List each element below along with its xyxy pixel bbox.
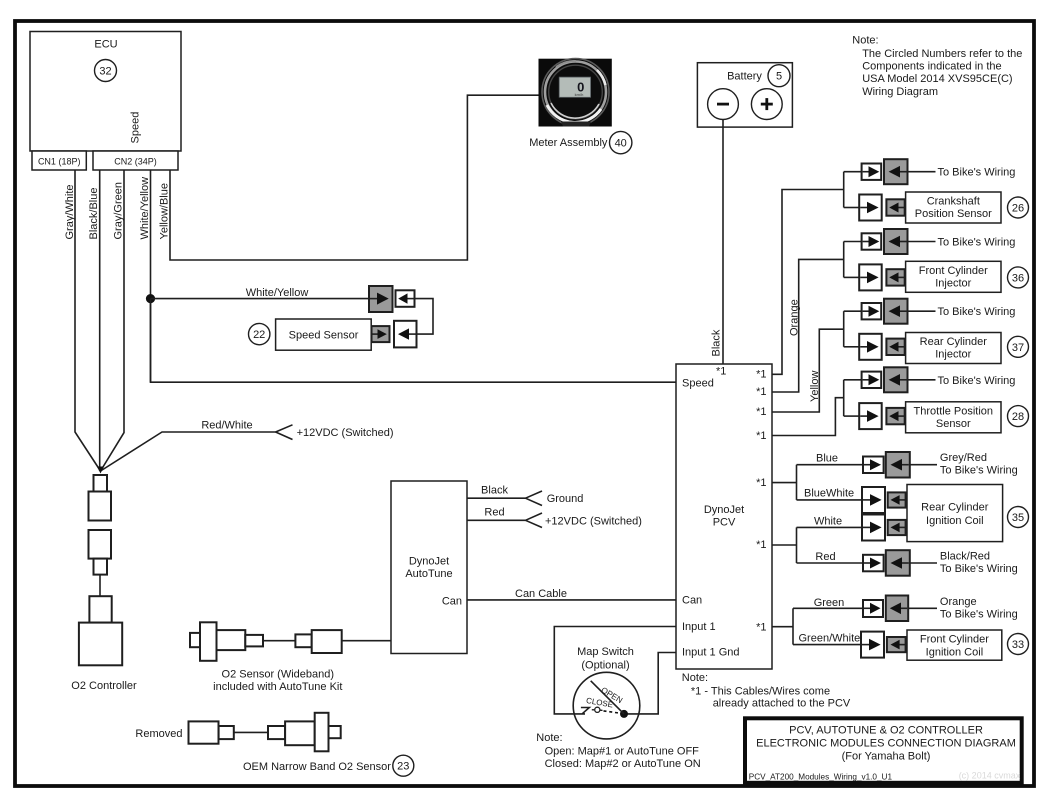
svg-text:32: 32 — [99, 66, 111, 78]
svg-text:PCV_AT200_Modules_Wiring_v1.0_: PCV_AT200_Modules_Wiring_v1.0_U1 — [749, 773, 893, 782]
circled number 32 — [95, 60, 117, 82]
svg-text:40: 40 — [615, 138, 627, 150]
svg-text:Can Cable: Can Cable — [515, 588, 567, 600]
svg-text:5: 5 — [776, 71, 782, 83]
svg-text:included with AutoTune Kit: included with AutoTune Kit — [213, 681, 342, 693]
connector gray socket (White) — [888, 520, 906, 535]
connector white plug (Green/White) — [861, 632, 884, 658]
label Black/Red To Bike's Wiring — [940, 550, 1018, 575]
speed sensor connector: white socket with arrow — [396, 290, 415, 307]
svg-text:AutoTune: AutoTune — [405, 568, 452, 580]
svg-text:Front Cylinder: Front Cylinder — [920, 634, 989, 646]
circled number 28 — [1008, 406, 1029, 427]
svg-text:Yellow/Blue: Yellow/Blue — [159, 183, 171, 239]
svg-text:already attached to the PCV: already attached to the PCV — [713, 698, 851, 710]
svg-text:Red: Red — [815, 551, 835, 563]
svg-text:(Optional): (Optional) — [581, 660, 629, 672]
connector gray socket (rear injector) — [886, 339, 904, 355]
svg-text:Blue: Blue — [816, 453, 838, 465]
svg-text:Grey/Red: Grey/Red — [940, 452, 987, 464]
O2 sensor (wideband) plug — [245, 635, 263, 647]
connector white plug (BlueWhite) — [862, 487, 885, 513]
O2 controller cable connector socket (wide) — [89, 530, 112, 559]
connector white plug (Red, to bike) — [863, 555, 884, 572]
wire to bike connector row 4 — [844, 379, 862, 381]
circled number 36 — [1008, 267, 1029, 288]
label Orange To Bike's Wiring — [940, 596, 1018, 621]
svg-text:26: 26 — [1012, 203, 1024, 215]
svg-text:Components indicated in the: Components indicated in the — [862, 61, 1001, 73]
note map switch — [536, 732, 700, 770]
speed sensor box connector: white socket with arrow — [394, 321, 417, 348]
svg-text:Input 1: Input 1 — [682, 621, 716, 633]
wire PCV pin1 to crankshaft group (Orange) — [772, 190, 844, 375]
circled number 37 — [1008, 336, 1029, 357]
OEM sensor mating plug — [268, 726, 285, 739]
svg-text:*1: *1 — [756, 430, 766, 442]
label Grey/Red To Bike's Wiring — [940, 452, 1018, 477]
connector gray socket (to bike's wiring, front injector group) — [884, 229, 908, 254]
svg-text:O2 Sensor (Wideband): O2 Sensor (Wideband) — [222, 669, 335, 681]
OEM sensor plug body — [189, 721, 219, 743]
wire bracket front coil pair — [792, 608, 794, 644]
svg-text:Speed Sensor: Speed Sensor — [289, 330, 359, 342]
svg-text:Orange: Orange — [940, 596, 977, 608]
svg-text:Note:: Note: — [682, 672, 708, 684]
speed sensor connector: gray plug with arrow — [369, 286, 393, 312]
label Map Switch (Optional) — [577, 646, 634, 672]
connector white plug (White) — [862, 515, 885, 541]
svg-text:*1: *1 — [756, 406, 766, 418]
wire Input 1 to map switch — [554, 627, 676, 714]
wire PCV pin3 to rear injector group (Yellow) — [772, 329, 844, 412]
circled number 5 — [768, 65, 790, 87]
circled number 40 — [610, 131, 632, 153]
wire Blue row — [797, 464, 864, 466]
wire to label — [910, 562, 937, 564]
connector gray socket (to bike's wiring, crankshaft group) — [884, 159, 908, 184]
wire Green/White row — [793, 644, 861, 646]
connector gray socket (crankshaft sensor) — [886, 199, 904, 215]
wire wideband sensor cable — [263, 640, 295, 642]
svg-text:USA Model 2014 XVS95CE(C): USA Model 2014 XVS95CE(C) — [862, 73, 1012, 85]
svg-text:+12VDC (Switched): +12VDC (Switched) — [545, 516, 642, 528]
connector gray socket (Red, to bike) — [886, 550, 910, 576]
wire loop joining speed sensor connectors — [415, 299, 434, 335]
svg-text:Ignition Coil: Ignition Coil — [926, 515, 983, 527]
connector gray socket (front injector) — [886, 269, 904, 285]
title block — [745, 718, 1022, 783]
dashed closed-position line — [604, 711, 620, 713]
arrowhead into O2 controller connector — [97, 467, 104, 474]
svg-text:+12VDC (Switched): +12VDC (Switched) — [297, 427, 394, 439]
connector white plug (throttle sensor) — [859, 403, 882, 429]
wire Red row — [797, 562, 864, 564]
svg-text:DynoJet: DynoJet — [704, 504, 744, 516]
svg-text:DynoJet: DynoJet — [409, 556, 449, 568]
wire to bike connector row 2 — [844, 241, 862, 243]
svg-text:Rear Cylinder: Rear Cylinder — [920, 336, 988, 348]
Speed Sensor box — [276, 319, 372, 350]
speed sensor box connector: gray plug with arrow — [372, 326, 390, 342]
wire Black to ground — [467, 497, 526, 499]
svg-text:Red: Red — [484, 507, 504, 519]
svg-text:Gray/White: Gray/White — [64, 184, 76, 239]
svg-text:Black/Blue: Black/Blue — [88, 188, 100, 240]
connector CN2 (34P) — [93, 151, 178, 170]
svg-text:Can: Can — [442, 596, 462, 608]
svg-text:Speed: Speed — [130, 112, 142, 144]
wideband mating plug — [295, 634, 311, 647]
Battery box — [697, 63, 792, 127]
svg-text:Wiring Diagram: Wiring Diagram — [862, 86, 938, 98]
connector white plug (Green, to bike) — [863, 600, 883, 617]
wire bracket front injector group — [843, 242, 845, 278]
svg-text:To Bike's Wiring: To Bike's Wiring — [940, 563, 1018, 575]
svg-text:Crankshaft: Crankshaft — [927, 196, 980, 208]
svg-text:Input 1 Gnd: Input 1 Gnd — [682, 646, 740, 658]
wire to label — [908, 310, 936, 312]
svg-text:35: 35 — [1012, 512, 1024, 524]
connector gray socket (BlueWhite) — [888, 492, 906, 507]
switch common contact node — [620, 710, 628, 718]
fork symbol ground — [526, 491, 543, 506]
svg-text:Green: Green — [814, 597, 845, 609]
svg-text:Removed: Removed — [135, 728, 182, 740]
circled number 35 — [1008, 507, 1029, 528]
wire Yellow/Blue from CN2 to Meter Assembly — [170, 95, 539, 260]
svg-text:Rear Cylinder: Rear Cylinder — [921, 502, 989, 514]
switch fixed contact symbol — [581, 707, 603, 714]
svg-text:23: 23 — [397, 761, 409, 773]
wire wideband to AutoTune — [342, 640, 391, 642]
Map Switch circle — [573, 672, 640, 739]
svg-text:To Bike's Wiring: To Bike's Wiring — [938, 306, 1016, 318]
circled number 23 — [393, 755, 414, 776]
svg-text:*1: *1 — [756, 539, 766, 551]
svg-text:O2 Controller: O2 Controller — [71, 680, 137, 692]
svg-text:The Circled Numbers refer to t: The Circled Numbers refer to the — [862, 48, 1022, 60]
svg-text:km/h: km/h — [575, 92, 584, 97]
O2 sensor (wideband) body — [217, 630, 246, 650]
O2 Controller body — [71, 623, 137, 692]
svg-text:(For Yamaha Bolt): (For Yamaha Bolt) — [842, 751, 931, 763]
Rear Cylinder Ignition Coil box — [907, 485, 1003, 542]
svg-text:(c) 2014 cvmax: (c) 2014 cvmax — [959, 771, 1021, 781]
circled number 33 — [1008, 634, 1029, 655]
wire Gray/White from CN1 to O2 controller junction — [75, 170, 101, 471]
wire crankshaft row — [844, 207, 860, 209]
OEM sensor plug nose — [219, 726, 234, 739]
wire White/Yellow branch to speed sensor connector — [151, 298, 370, 300]
wire Red/White +12V feed — [101, 432, 276, 471]
svg-text:White/Yellow: White/Yellow — [139, 177, 151, 240]
svg-text:Yellow: Yellow — [809, 371, 821, 402]
battery negative terminal — [708, 89, 739, 120]
wire Red to +12VDC — [467, 519, 526, 521]
svg-text:Speed: Speed — [682, 378, 714, 390]
wire bracket throttle group — [843, 380, 845, 416]
wire throttle sensor row — [844, 415, 860, 417]
svg-text:Injector: Injector — [935, 349, 971, 361]
wire White/Yellow from CN2 down to Speed wire — [150, 170, 152, 382]
wire PCV pin7 to front coil bracket — [772, 626, 793, 628]
O2 sensor (wideband) tip — [190, 633, 200, 647]
wire bracket crankshaft group — [843, 172, 845, 208]
wire bracket rear coil lower pair — [796, 527, 798, 563]
svg-text:Front Cylinder: Front Cylinder — [919, 265, 988, 277]
connector CN1 (18P) — [32, 151, 86, 170]
wire BlueWhite row — [797, 499, 863, 501]
O2 controller connector socket (wide) — [89, 492, 112, 521]
svg-text:Battery: Battery — [727, 71, 762, 83]
wire bracket rear injector group — [843, 311, 845, 347]
svg-text:*1: *1 — [756, 477, 766, 489]
svg-text:Black/Red: Black/Red — [940, 550, 990, 562]
svg-text:33: 33 — [1012, 639, 1024, 651]
connector gray socket (Blue, to bike) — [886, 452, 910, 478]
battery positive terminal — [751, 89, 782, 120]
svg-text:Ground: Ground — [547, 493, 584, 505]
O2 controller cable connector plug (narrow) — [94, 559, 108, 575]
svg-text:To Bike's Wiring: To Bike's Wiring — [940, 608, 1018, 620]
svg-text:*1: *1 — [756, 369, 766, 381]
svg-text:Ignition Coil: Ignition Coil — [926, 647, 983, 659]
svg-text:To Bike's Wiring: To Bike's Wiring — [938, 375, 1016, 387]
svg-text:Green/White: Green/White — [799, 633, 861, 645]
note PCV cables — [682, 672, 851, 710]
svg-text:Can: Can — [682, 595, 702, 607]
Rear Cylinder Injector box — [906, 333, 1001, 364]
OEM sensor hex flange — [315, 713, 329, 752]
wire to label — [908, 171, 936, 173]
wire Black battery negative to PCV — [722, 120, 724, 365]
DynoJet AutoTune box — [391, 481, 467, 654]
svg-text:Sensor: Sensor — [936, 418, 971, 430]
svg-text:Black: Black — [711, 329, 723, 356]
svg-text:Open: Map#1 or AutoTune OFF: Open: Map#1 or AutoTune OFF — [545, 746, 700, 758]
wire Input 1 Gnd to map switch — [624, 653, 676, 714]
connector gray socket (throttle sensor) — [886, 408, 904, 424]
wire to label — [908, 379, 936, 381]
wire bracket rear coil upper pair — [796, 465, 798, 500]
connector gray socket (to bike's wiring, throttle group) — [884, 367, 908, 392]
fork symbol +12VDC — [526, 513, 543, 528]
Front Cylinder Ignition Coil box — [907, 630, 1002, 660]
DynoJet PCV box — [676, 364, 772, 669]
svg-text:Note:: Note: — [536, 732, 562, 744]
svg-text:White: White — [814, 515, 842, 527]
Meter Assembly photo — [539, 59, 612, 127]
wire PCV pin4 to throttle group — [772, 398, 844, 436]
svg-text:PCV, AUTOTUNE & O2 CONTROLLER: PCV, AUTOTUNE & O2 CONTROLLER — [789, 725, 983, 737]
wire Speed from junction to PCV Speed input — [151, 299, 677, 383]
connector gray socket (Green/White) — [887, 637, 906, 652]
svg-text:22: 22 — [253, 329, 265, 341]
wire to bike connector row 3 — [844, 310, 862, 312]
svg-text:28: 28 — [1012, 411, 1024, 423]
connector white plug (to bike's wiring, rear injector group) — [862, 303, 882, 319]
connector gray socket (Green, to bike) — [886, 596, 908, 622]
wire rear injector row — [844, 346, 860, 348]
connector white plug (to bike's wiring, crankshaft group) — [862, 164, 882, 180]
wire to bike connector row 1 — [844, 171, 862, 173]
wire to O2 controller — [99, 575, 101, 597]
circled number 22 — [249, 323, 270, 344]
OEM sensor tip — [329, 726, 341, 738]
wire to label — [910, 464, 937, 466]
svg-text:Position Sensor: Position Sensor — [915, 208, 992, 220]
svg-text:To Bike's Wiring: To Bike's Wiring — [938, 237, 1016, 249]
svg-text:36: 36 — [1012, 272, 1024, 284]
svg-text:*1: *1 — [756, 622, 766, 634]
svg-text:To Bike's Wiring: To Bike's Wiring — [940, 465, 1018, 477]
O2 controller connector plug (narrow) — [94, 475, 108, 492]
wire PCV pin5 to rear coil bracket — [772, 482, 797, 484]
connector white plug (crankshaft sensor) — [859, 195, 882, 221]
wire to label — [908, 607, 937, 609]
svg-text:To Bike's Wiring: To Bike's Wiring — [938, 167, 1016, 179]
svg-text:37: 37 — [1012, 342, 1024, 354]
OEM sensor body — [285, 721, 315, 745]
circled number 26 — [1008, 197, 1029, 218]
svg-text:Black: Black — [481, 485, 508, 497]
connector white plug (rear injector) — [859, 334, 882, 360]
connector white plug (to bike's wiring, front injector group) — [862, 233, 882, 249]
wire PCV pin6 to rear coil lower bracket — [772, 544, 797, 546]
wire front injector row — [844, 276, 860, 278]
wire Green row — [793, 607, 863, 609]
svg-text:*1: *1 — [756, 386, 766, 398]
note circled numbers — [852, 35, 1022, 98]
svg-text:Map Switch: Map Switch — [577, 646, 634, 658]
wire Black/Blue from CN2 to O2 controller junction — [99, 170, 101, 471]
svg-text:Note:: Note: — [852, 35, 878, 47]
svg-text:Meter Assembly: Meter Assembly — [529, 137, 608, 149]
O2 controller neck — [89, 596, 111, 622]
svg-text:Red/White: Red/White — [201, 420, 252, 432]
wire OEM sensor cable — [234, 731, 268, 733]
svg-text:BlueWhite: BlueWhite — [804, 488, 854, 500]
svg-text:ELECTRONIC MODULES CONNECTION: ELECTRONIC MODULES CONNECTION DIAGRAM — [756, 738, 1016, 750]
svg-text:CN2 (34P): CN2 (34P) — [114, 157, 157, 167]
Throttle Position Sensor box — [906, 402, 1001, 433]
wire to label — [908, 241, 936, 243]
svg-text:Throttle Position: Throttle Position — [914, 405, 993, 417]
wire White row — [797, 526, 863, 528]
connector gray socket (to bike's wiring, rear injector group) — [884, 299, 908, 324]
connector white plug (Blue, to bike) — [863, 457, 884, 474]
wire Gray/Green from CN2 to O2 controller junction — [101, 170, 125, 471]
svg-text:Gray/Green: Gray/Green — [112, 182, 124, 239]
junction node on White/Yellow wire — [146, 294, 155, 303]
connector white plug (front injector) — [859, 264, 882, 290]
svg-text:PCV: PCV — [713, 517, 736, 529]
svg-text:White/Yellow: White/Yellow — [246, 287, 309, 299]
ECU U32 box — [30, 32, 181, 152]
switch lever (open) — [591, 681, 624, 714]
svg-text:Closed: Map#2 or AutoTune ON: Closed: Map#2 or AutoTune ON — [545, 758, 701, 770]
wideband mating socket — [312, 630, 342, 653]
svg-text:CN1 (18P): CN1 (18P) — [38, 157, 81, 167]
svg-text:ECU: ECU — [94, 39, 117, 51]
wire PCV pin2 to front injector group — [772, 259, 844, 392]
O2 sensor (wideband) hex flange — [200, 622, 217, 661]
fork symbol +12VDC — [276, 425, 293, 440]
svg-text:*1 - This Cables/Wires come: *1 - This Cables/Wires come — [691, 686, 830, 698]
Crankshaft Position Sensor box — [906, 192, 1001, 223]
svg-text:Injector: Injector — [935, 278, 971, 290]
connector white plug (to bike's wiring, throttle group) — [862, 372, 882, 388]
svg-text:*1: *1 — [716, 366, 726, 378]
wire Can cable — [467, 599, 676, 601]
Front Cylinder Injector box — [906, 261, 1001, 292]
svg-text:OEM Narrow Band O2 Sensor: OEM Narrow Band O2 Sensor — [243, 761, 391, 773]
